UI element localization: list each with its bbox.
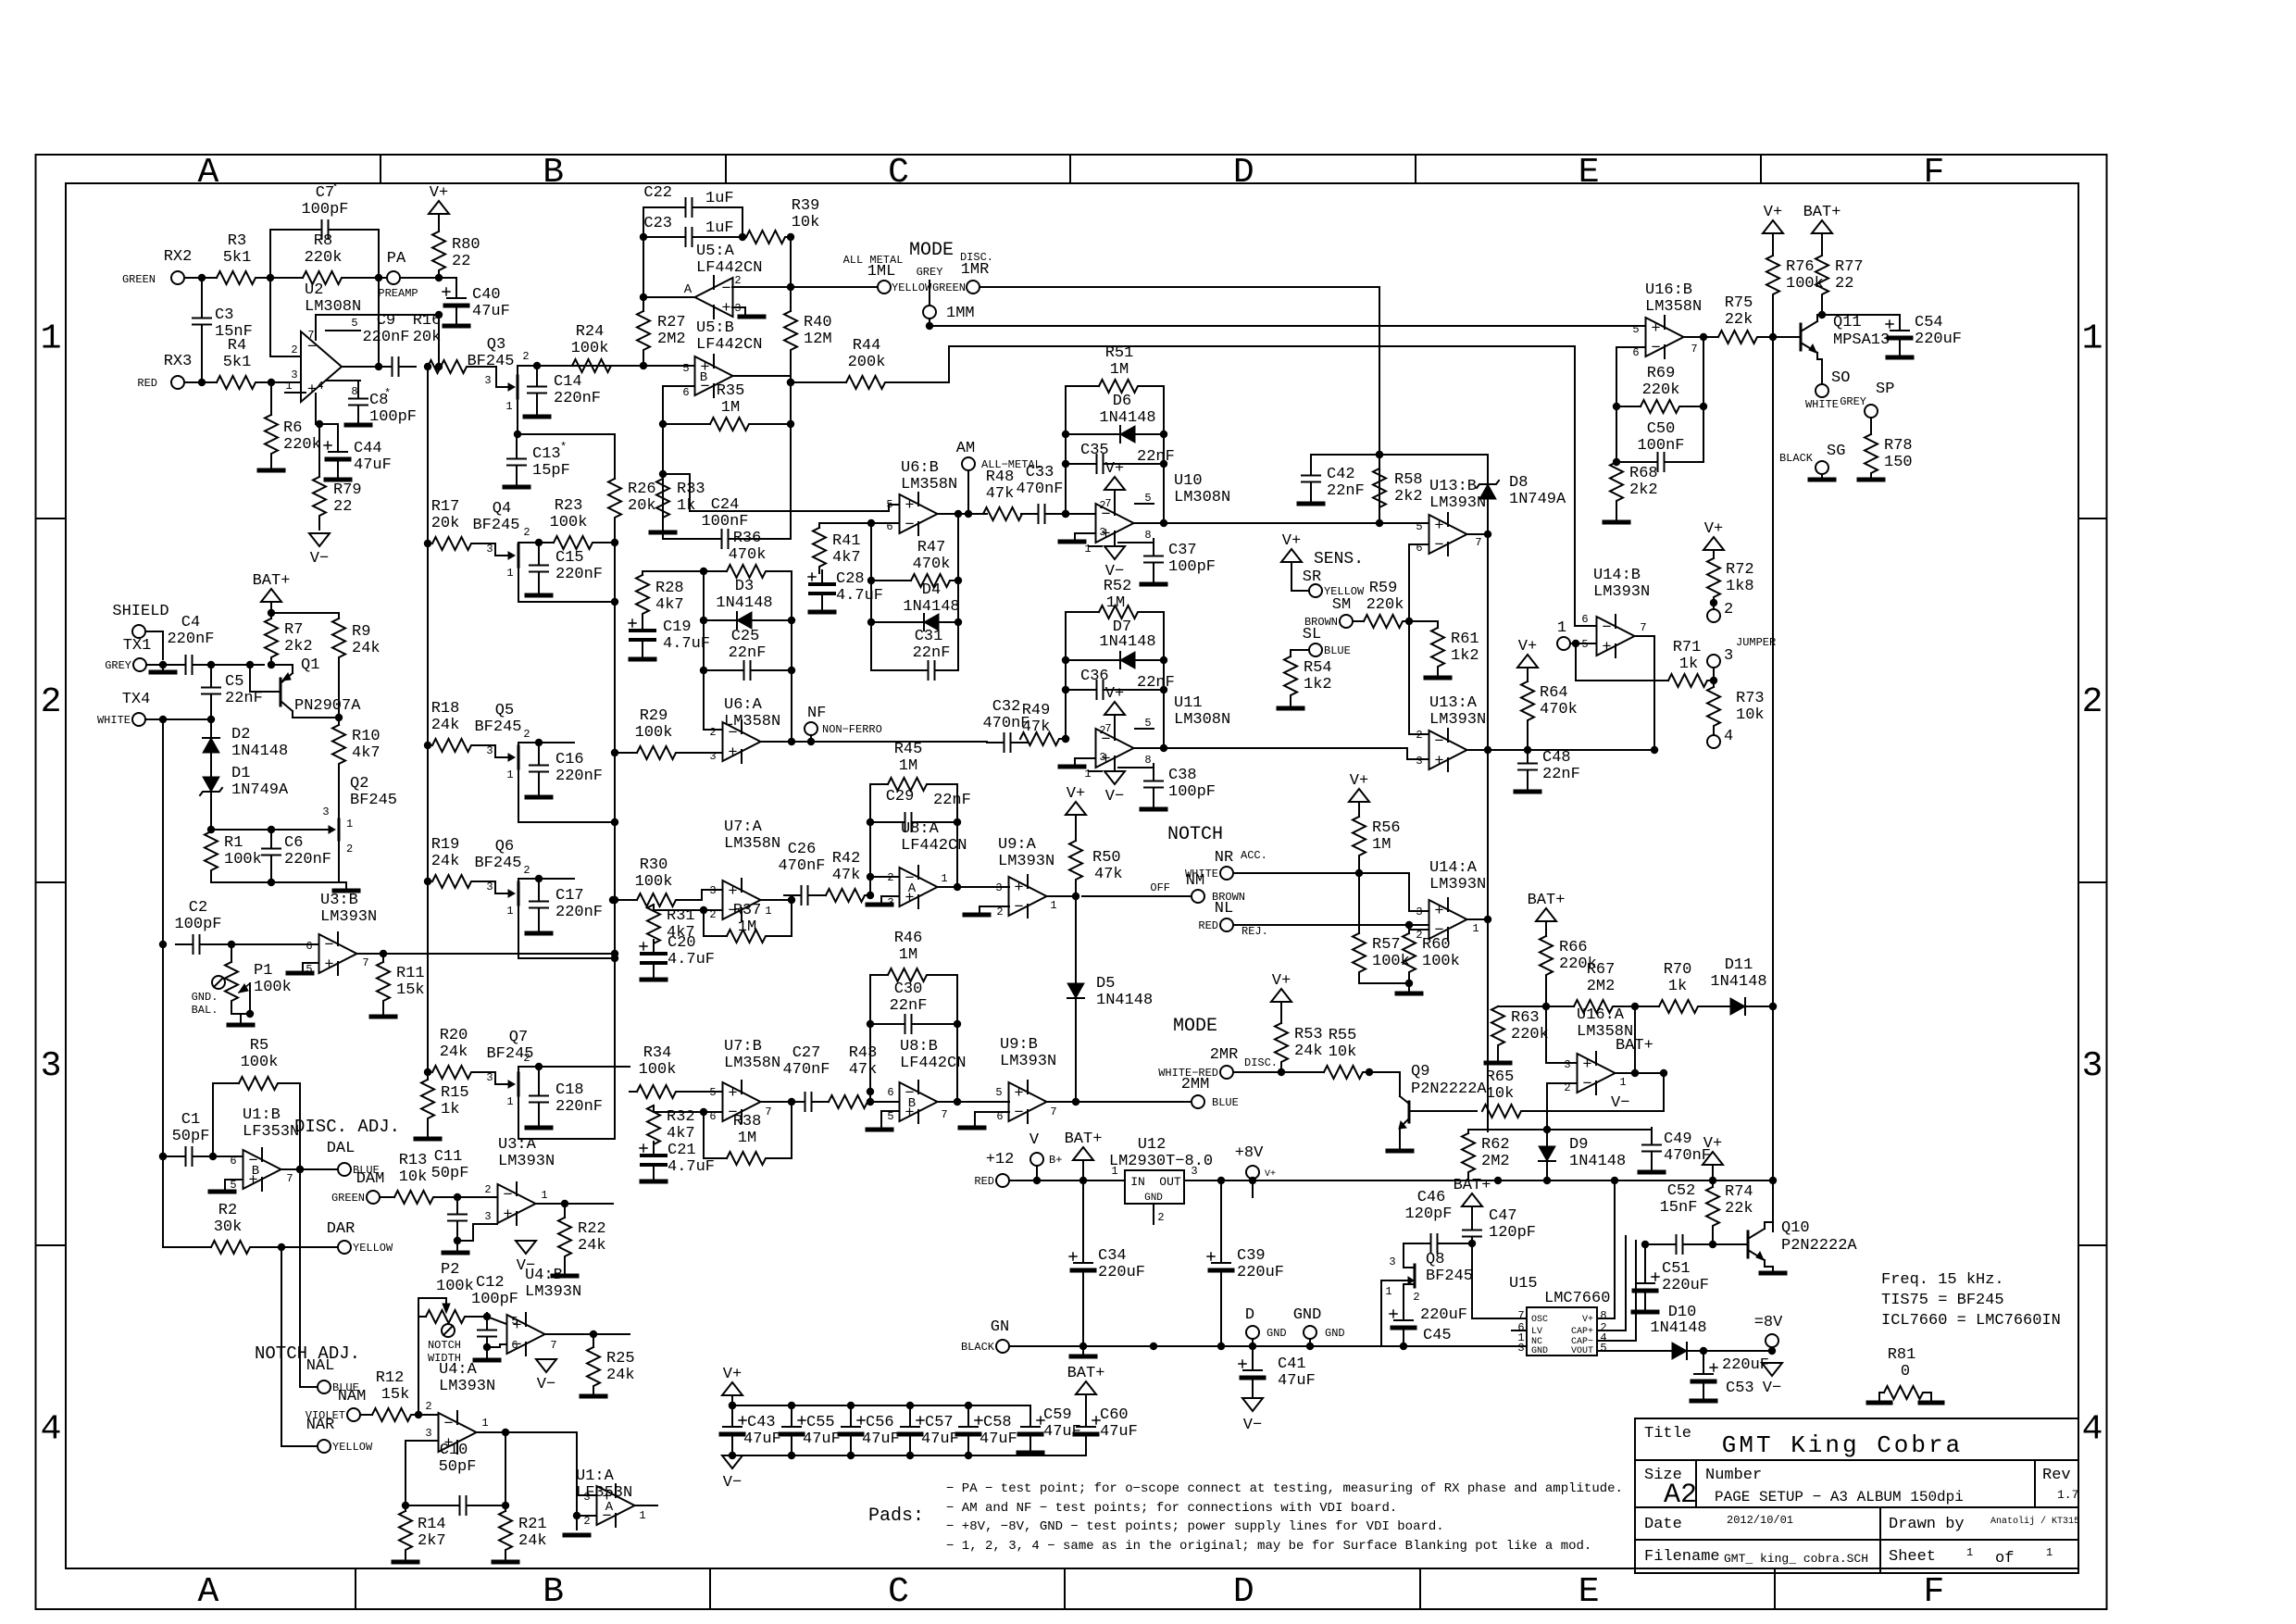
svg-text:1M: 1M — [738, 918, 756, 936]
svg-text:1: 1 — [1557, 619, 1566, 637]
svg-text:R72: R72 — [1726, 561, 1754, 579]
svg-text:5: 5 — [511, 1315, 518, 1328]
resistor R76 — [1766, 233, 1824, 337]
pad SL — [1303, 626, 1351, 657]
ecap C57 — [899, 1402, 959, 1459]
ground P1 — [229, 1023, 253, 1028]
pad GN — [961, 1318, 1009, 1354]
wire Q8 source — [1413, 1291, 1419, 1304]
svg-text:+: + — [721, 300, 730, 318]
svg-text:1k: 1k — [441, 1101, 459, 1118]
op-amp U3:A — [484, 1136, 555, 1225]
svg-text:−: − — [905, 517, 914, 534]
svg-text:1: 1 — [1472, 922, 1479, 935]
ground U8A — [867, 903, 892, 907]
svg-text:1M: 1M — [1372, 836, 1391, 854]
resistor R29 — [615, 707, 722, 759]
pad V B+ — [1029, 1131, 1063, 1184]
resistor R62 — [1462, 1130, 1510, 1181]
wire V+ bus Q10 — [1769, 337, 1777, 1231]
wire U6A out — [761, 738, 987, 745]
svg-text:2: 2 — [996, 906, 1003, 918]
svg-text:Rev: Rev — [2042, 1467, 2071, 1484]
svg-text:1: 1 — [1050, 899, 1056, 912]
svg-text:C10: C10 — [440, 1442, 468, 1459]
svg-text:100k: 100k — [254, 979, 292, 996]
svg-text:2: 2 — [1564, 1081, 1570, 1094]
pad +12 — [974, 1151, 1055, 1188]
svg-text:U14:B: U14:B — [1593, 567, 1641, 584]
svg-text:BAT+: BAT+ — [1067, 1365, 1105, 1382]
pad GND — [1293, 1306, 1345, 1346]
resistor R33 — [656, 479, 705, 519]
svg-text:22k: 22k — [1725, 311, 1753, 329]
svg-text:470k: 470k — [729, 546, 767, 564]
wire U15 CAP- up — [1597, 1241, 1636, 1341]
resistor R5 — [239, 1037, 280, 1090]
power V+ R76 — [1763, 204, 1783, 233]
svg-text:+: + — [1582, 1056, 1591, 1074]
pad jumper2 — [1707, 601, 1733, 622]
capacitor C23 — [643, 215, 733, 246]
power V- U10 — [1104, 546, 1125, 581]
svg-text:YELLOW: YELLOW — [332, 1441, 373, 1454]
resistor R74 — [1706, 1181, 1753, 1248]
resistor R49 — [1020, 702, 1061, 745]
svg-text:220k: 220k — [1511, 1026, 1549, 1043]
wire R47 verts — [867, 514, 962, 670]
resistor R20 — [424, 1027, 473, 1079]
svg-text:1: 1 — [506, 1095, 513, 1108]
pad NM — [1082, 872, 1245, 904]
op-amp U8:A — [887, 820, 967, 909]
svg-text:E: E — [1578, 1572, 1600, 1612]
svg-text:20k: 20k — [413, 329, 442, 346]
op-amp U9:A — [995, 836, 1056, 918]
svg-text:V+: V+ — [1105, 685, 1124, 703]
svg-text:C54: C54 — [1915, 314, 1943, 331]
svg-text:47k: 47k — [1022, 718, 1051, 736]
svg-text:−: − — [1014, 1105, 1023, 1122]
svg-text:R21: R21 — [518, 1516, 547, 1533]
svg-text:V−: V− — [310, 550, 329, 568]
svg-text:BLACK: BLACK — [961, 1341, 995, 1354]
resistor R65 — [1482, 1068, 1667, 1118]
svg-text:Q6: Q6 — [495, 838, 514, 856]
svg-text:D11: D11 — [1725, 956, 1753, 974]
wire U9B out — [1047, 1098, 1192, 1106]
svg-text:100k: 100k — [1422, 953, 1460, 970]
power BAT+ R77 — [1803, 204, 1841, 233]
svg-text:R78: R78 — [1884, 437, 1913, 455]
ground C15 — [527, 593, 551, 598]
svg-text:24k: 24k — [578, 1237, 606, 1255]
wire SM bus down — [1409, 621, 1429, 734]
pad SO — [1805, 369, 1850, 411]
svg-text:3: 3 — [484, 374, 491, 387]
wire U14B bus — [1575, 643, 1577, 681]
wire R35 right — [787, 382, 794, 428]
svg-text:PREAMP: PREAMP — [378, 287, 418, 300]
power V- U3A — [516, 1241, 536, 1275]
svg-text:U7:A: U7:A — [724, 818, 763, 836]
svg-text:D3: D3 — [735, 578, 754, 595]
svg-text:R3: R3 — [228, 232, 246, 250]
svg-text:4: 4 — [41, 1410, 62, 1450]
ground U1A — [565, 1533, 589, 1538]
resistor R71 — [1576, 639, 1717, 687]
svg-text:NON−FERRO: NON−FERRO — [822, 723, 882, 736]
ground C53 — [1691, 1399, 1716, 1404]
ground R15 — [416, 1137, 440, 1142]
pad jumper3 — [1707, 647, 1733, 681]
capacitor C24 — [659, 424, 791, 548]
svg-text:2: 2 — [425, 1400, 431, 1413]
ecap C20 — [640, 934, 715, 977]
wire U11 out — [1134, 744, 1407, 752]
resistor R69 — [1613, 365, 1707, 413]
svg-text:1: 1 — [765, 905, 771, 918]
svg-text:RX2: RX2 — [164, 248, 193, 266]
ground U9B — [960, 1126, 984, 1131]
svg-text:Q5: Q5 — [495, 702, 514, 719]
svg-text:B: B — [252, 1164, 259, 1179]
resistor R4 — [217, 337, 257, 389]
pad 2MR — [1158, 1046, 1278, 1080]
capacitor C25 — [700, 628, 795, 680]
resistor R1 — [205, 830, 262, 882]
wire R69 loop — [1613, 337, 1703, 466]
svg-text:R59: R59 — [1369, 580, 1398, 597]
svg-text:3: 3 — [486, 543, 493, 556]
svg-text:− 1, 2, 3, 4 − same as in the: − 1, 2, 3, 4 − same as in the original; … — [946, 1539, 1591, 1554]
svg-text:3: 3 — [425, 1427, 431, 1440]
capacitor C1 — [159, 1111, 213, 1166]
svg-text:4: 4 — [317, 380, 323, 393]
ground C13 — [505, 485, 529, 490]
ground C18 — [527, 1126, 551, 1131]
svg-text:D4: D4 — [922, 581, 941, 599]
svg-text:R18: R18 — [431, 700, 460, 718]
svg-text:C18: C18 — [555, 1081, 584, 1099]
wire U2 out — [342, 366, 379, 368]
svg-text:1: 1 — [2082, 319, 2103, 358]
resistor R53 — [1275, 1023, 1323, 1072]
capacitor C6 — [211, 826, 331, 886]
wire U8A pin2 — [870, 877, 899, 895]
wire Q9 base row — [1409, 1110, 1477, 1112]
svg-text:4k7: 4k7 — [655, 596, 684, 614]
wire C9 R16 — [424, 363, 431, 370]
svg-text:6: 6 — [886, 520, 892, 533]
svg-text:Q2: Q2 — [350, 775, 368, 793]
svg-text:24k: 24k — [352, 640, 381, 657]
svg-text:B: B — [543, 1572, 564, 1612]
svg-text:2: 2 — [522, 350, 529, 363]
svg-text:−: − — [1651, 340, 1660, 357]
svg-text:R49: R49 — [1022, 702, 1051, 719]
svg-text:10k: 10k — [1486, 1085, 1515, 1103]
resistor R41 — [813, 523, 861, 573]
op-amp U2 — [285, 281, 361, 411]
svg-text:47uF: 47uF — [354, 456, 392, 474]
power V- =8V — [1762, 1363, 1782, 1397]
svg-text:R26: R26 — [628, 481, 656, 498]
svg-text:C30: C30 — [894, 981, 923, 998]
ground Q10 — [1761, 1271, 1785, 1276]
svg-text:R41: R41 — [832, 532, 861, 550]
resistor R25 — [587, 1334, 635, 1393]
capacitor C31 — [871, 628, 958, 680]
svg-text:U8:B: U8:B — [900, 1038, 938, 1056]
ground C54 — [1888, 356, 1912, 360]
capacitor C40 — [439, 278, 510, 323]
svg-text:BF245: BF245 — [1426, 1268, 1473, 1285]
svg-text:1k2: 1k2 — [1304, 676, 1332, 693]
resistor R10 — [332, 718, 381, 781]
svg-text:AM: AM — [956, 440, 975, 457]
pad NR — [1185, 849, 1267, 881]
svg-text:R1: R1 — [224, 834, 243, 852]
wire R62 D9 row — [1468, 1129, 1652, 1131]
svg-text:1M: 1M — [1106, 594, 1125, 612]
svg-text:R22: R22 — [578, 1220, 606, 1238]
svg-text:1M: 1M — [1110, 361, 1129, 379]
svg-text:V−: V− — [1611, 1094, 1629, 1112]
resistor R2 — [163, 1202, 338, 1254]
ground C28 — [810, 607, 834, 612]
svg-text:+: + — [1651, 320, 1660, 338]
wire U7A pin2 — [700, 906, 722, 914]
svg-text:R11: R11 — [396, 965, 425, 982]
wire Q7 source — [518, 1138, 615, 1140]
svg-text:C35: C35 — [1080, 442, 1109, 459]
resistor R9 — [271, 613, 381, 718]
svg-text:7: 7 — [1050, 1106, 1056, 1118]
svg-text:YELLOW: YELLOW — [353, 1242, 393, 1255]
resistor R19 — [431, 836, 473, 888]
svg-text:LM308N: LM308N — [1174, 711, 1230, 729]
resistor R30 — [615, 856, 702, 906]
svg-text:*: * — [331, 181, 338, 194]
svg-text:5: 5 — [887, 1110, 893, 1123]
svg-text:− PA − test point; for o−scope: − PA − test point; for o−scope connect a… — [946, 1481, 1623, 1496]
svg-text:C38: C38 — [1168, 767, 1197, 784]
svg-text:LM358N: LM358N — [724, 835, 780, 853]
svg-text:NF: NF — [807, 705, 826, 722]
svg-text:+: + — [1014, 1085, 1023, 1103]
svg-text:+: + — [1602, 639, 1611, 656]
svg-text:100pF: 100pF — [1168, 558, 1216, 576]
svg-text:R64: R64 — [1540, 684, 1568, 702]
svg-text:U13:A: U13:A — [1429, 694, 1478, 712]
svg-text:Drawn by: Drawn by — [1889, 1516, 1965, 1533]
svg-text:R46: R46 — [894, 930, 923, 947]
svg-text:P2N2222A: P2N2222A — [1411, 1081, 1487, 1098]
svg-text:3: 3 — [1416, 755, 1422, 768]
resistor R8 — [303, 232, 343, 284]
capacitor C12 — [471, 1274, 518, 1356]
resistor R81 — [1879, 1346, 1931, 1400]
resistor R32 — [647, 1106, 704, 1146]
svg-text:R12: R12 — [376, 1369, 405, 1387]
svg-text:C22: C22 — [643, 184, 672, 202]
capacitor C4 — [167, 614, 215, 674]
svg-text:LM308N: LM308N — [305, 298, 361, 316]
svg-text:V+: V+ — [1282, 532, 1301, 550]
jfet Q3 — [467, 336, 529, 434]
svg-text:LM393N: LM393N — [320, 908, 377, 926]
svg-text:R15: R15 — [441, 1084, 469, 1102]
svg-text:U16:B: U16:B — [1645, 281, 1692, 299]
svg-text:1: 1 — [506, 567, 513, 580]
svg-text:DISC.: DISC. — [1244, 1056, 1278, 1069]
svg-text:3: 3 — [1099, 751, 1105, 764]
label BATp U16A — [1616, 1037, 1653, 1055]
svg-text:3: 3 — [1416, 906, 1422, 918]
wire V+ bus down — [435, 315, 443, 370]
svg-text:5: 5 — [709, 1086, 716, 1099]
capacitor C9 — [362, 312, 416, 376]
svg-text:Q8: Q8 — [1426, 1251, 1444, 1268]
ground U5A — [740, 315, 764, 319]
svg-text:5: 5 — [1600, 1342, 1606, 1355]
wire U11 pin3 gnd — [1075, 758, 1095, 764]
svg-text:B+: B+ — [1049, 1154, 1062, 1167]
svg-text:Freq. 15 kHz.: Freq. 15 kHz. — [1881, 1271, 2004, 1289]
wire Q7 drain — [518, 1063, 630, 1070]
svg-text:R57: R57 — [1372, 936, 1401, 954]
ground C21 — [642, 1179, 666, 1181]
svg-text:V−: V− — [537, 1376, 555, 1393]
svg-text:TX4: TX4 — [122, 691, 151, 708]
svg-text:V−: V− — [1105, 788, 1124, 806]
op-amp U4:A — [425, 1361, 495, 1454]
svg-text:2: 2 — [523, 1052, 530, 1065]
svg-text:100k: 100k — [635, 873, 673, 891]
power V+ R72 — [1703, 520, 1724, 558]
svg-text:ACC.: ACC. — [1241, 849, 1267, 862]
svg-text:R17: R17 — [431, 498, 460, 516]
svg-text:R30: R30 — [640, 856, 668, 874]
svg-text:30k: 30k — [214, 1218, 243, 1236]
wire R7 emitter — [271, 664, 293, 666]
ground C48 — [1516, 790, 1540, 794]
ground C19 — [630, 654, 655, 659]
svg-text:LF442CN: LF442CN — [696, 336, 762, 354]
wire U16B out — [1684, 333, 1717, 341]
wire Q3 drain row — [518, 362, 643, 369]
svg-text:V+: V+ — [1518, 638, 1537, 656]
resistor R56 — [1353, 817, 1401, 873]
ground R22 — [553, 1274, 577, 1279]
ground C17 — [527, 931, 551, 936]
svg-text:2M2: 2M2 — [657, 331, 686, 348]
wire U13A out — [1467, 746, 1491, 754]
pad SP — [1840, 381, 1894, 418]
svg-text:470nF: 470nF — [1016, 481, 1063, 498]
svg-text:C50: C50 — [1647, 420, 1676, 438]
wire MODE 1ML — [732, 286, 878, 288]
svg-text:220k: 220k — [283, 436, 321, 454]
resistor R47 — [871, 539, 958, 587]
ecap C45 — [1390, 1305, 1467, 1346]
svg-text:R23: R23 — [555, 497, 583, 515]
svg-text:WHITE: WHITE — [1805, 398, 1839, 411]
svg-text:VOUT: VOUT — [1571, 1346, 1593, 1356]
resistor R37 — [704, 902, 792, 943]
pad SM — [1304, 596, 1353, 629]
svg-text:V+: V+ — [1067, 785, 1085, 803]
svg-text:22: 22 — [1835, 275, 1853, 293]
resistor R28 — [636, 568, 707, 620]
wire U10 loop — [1062, 386, 1164, 523]
wire R17 Q4 — [473, 543, 495, 544]
svg-text:1: 1 — [346, 818, 353, 831]
svg-text:220nF: 220nF — [555, 566, 603, 583]
svg-text:LM393N: LM393N — [525, 1283, 581, 1301]
wire U14A pin2 — [1409, 925, 1429, 930]
svg-text:BAT+: BAT+ — [1803, 204, 1841, 221]
wire C7 loop — [270, 230, 382, 370]
svg-text:REJ.: REJ. — [1242, 925, 1268, 938]
svg-text:R81: R81 — [1888, 1346, 1916, 1364]
svg-text:2k2: 2k2 — [1629, 481, 1658, 499]
wire R5 loop — [209, 1083, 304, 1173]
svg-text:3: 3 — [583, 1491, 590, 1504]
pot P2 — [418, 1261, 491, 1323]
svg-text:C3: C3 — [215, 306, 233, 324]
svg-text:Filename: Filename — [1644, 1548, 1720, 1566]
op-amp U8:B — [887, 1038, 966, 1123]
svg-text:DAL: DAL — [327, 1140, 356, 1157]
resistor R45 — [870, 741, 957, 791]
svg-text:R54: R54 — [1304, 659, 1332, 677]
svg-text:R2: R2 — [218, 1202, 237, 1219]
resistor R24 — [571, 323, 613, 372]
svg-text:C20: C20 — [668, 934, 696, 952]
wire NR to pin3 — [1409, 873, 1429, 911]
rev cell — [2042, 1467, 2078, 1502]
wire U3B pin5 gnd — [303, 963, 318, 970]
svg-text:R71: R71 — [1673, 639, 1702, 656]
svg-text:2: 2 — [484, 1183, 491, 1196]
svg-text:LM358N: LM358N — [724, 1055, 780, 1072]
wire TX4 bus — [159, 719, 167, 1247]
svg-text:C9: C9 — [377, 312, 395, 330]
capacitor C17 — [530, 879, 603, 931]
svg-text:4k7: 4k7 — [352, 744, 381, 762]
svg-text:LMC7660: LMC7660 — [1544, 1290, 1610, 1307]
wire U5A pin3 gnd — [732, 307, 745, 315]
pad 1ML — [843, 254, 932, 294]
svg-text:GREY: GREY — [917, 266, 943, 279]
resistor R51 — [1066, 344, 1164, 393]
wire U5B pin6 — [659, 386, 694, 428]
svg-text:22: 22 — [452, 253, 470, 270]
wire R3 to R8 — [257, 274, 303, 281]
ground Q2 — [334, 889, 358, 893]
ground U9A — [965, 913, 989, 918]
svg-text:R73: R73 — [1736, 690, 1765, 707]
svg-text:C36: C36 — [1080, 668, 1109, 685]
svg-text:V+: V+ — [1265, 1169, 1276, 1180]
svg-text:5: 5 — [1144, 492, 1151, 505]
svg-text:R58: R58 — [1394, 471, 1423, 489]
svg-text:R69: R69 — [1647, 365, 1676, 382]
svg-text:150: 150 — [1884, 454, 1913, 471]
svg-text:DAM: DAM — [356, 1170, 385, 1188]
